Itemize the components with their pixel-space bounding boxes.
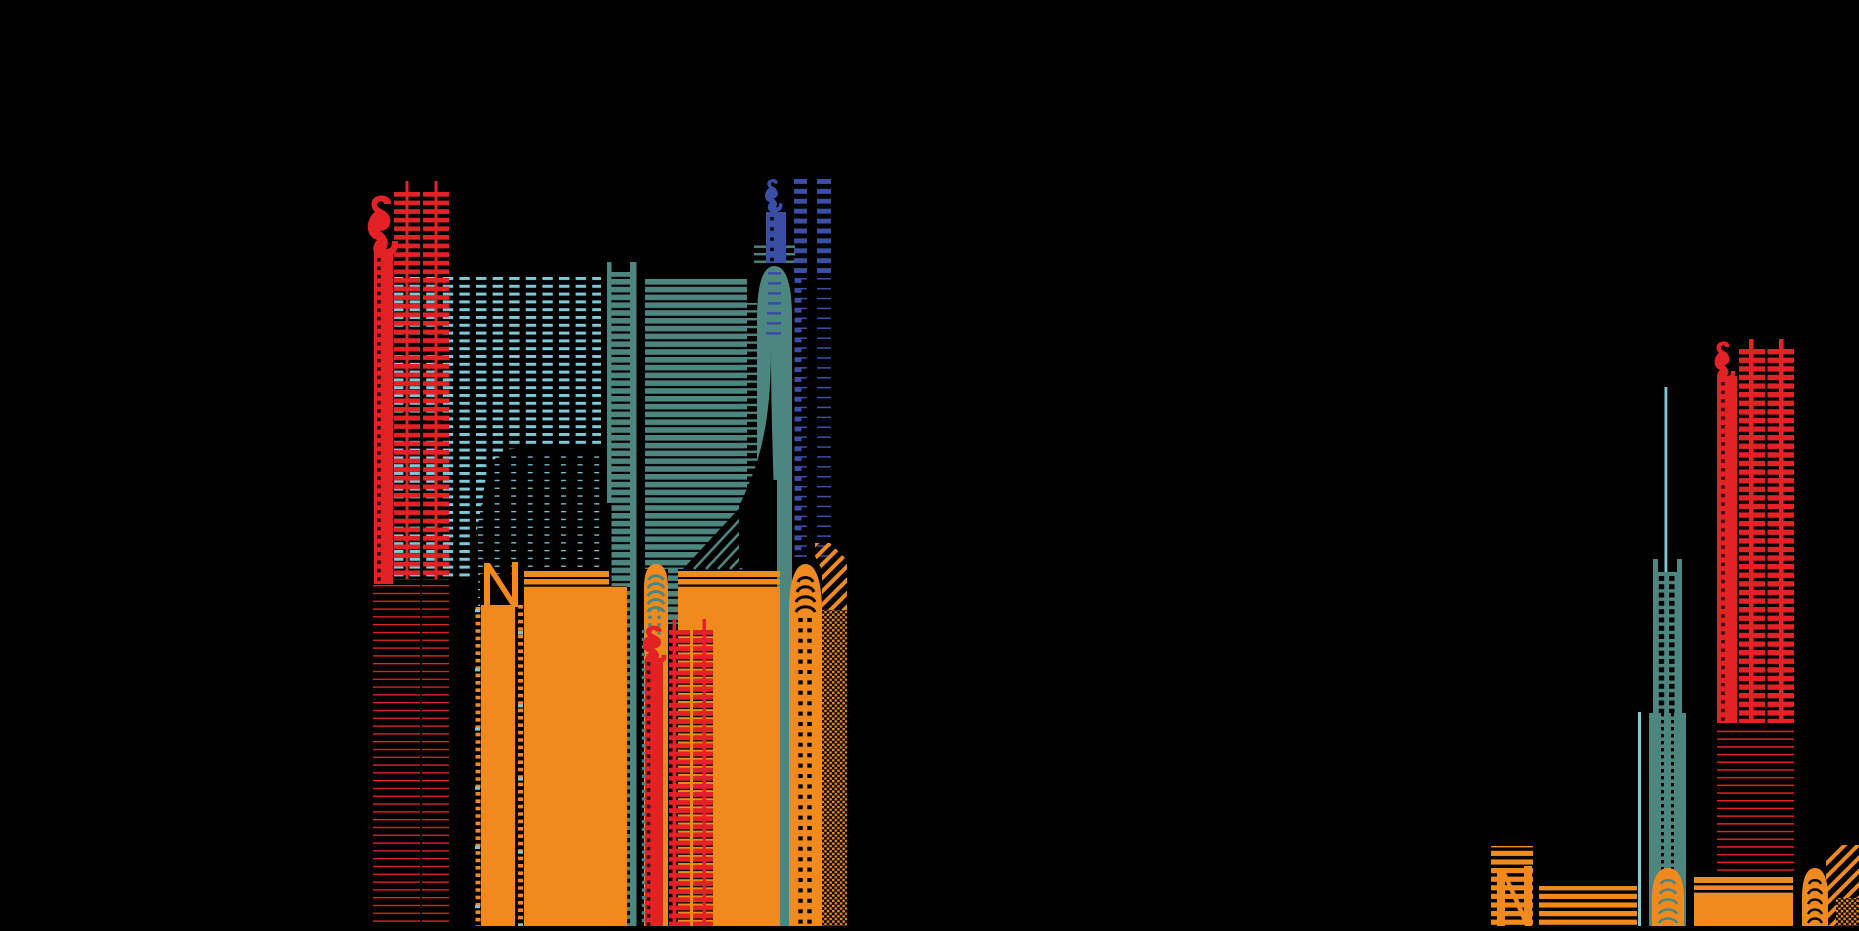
teal lower wide column [1649, 713, 1686, 926]
teal small ladder rail left [1653, 559, 1658, 713]
red thin lines right block [422, 585, 449, 926]
indigo S glyph [765, 179, 782, 212]
teal dotted strip left of rail 2 [627, 586, 630, 926]
teal ladder interior black dash col 2 [1669, 576, 1674, 713]
light blue thin vline lower [1638, 712, 1641, 926]
indigo thin lines column 2 [817, 277, 831, 557]
orange arch glyph over teal [1652, 868, 1684, 926]
light blue ticks sparse right of N column [518, 631, 523, 926]
teal arcs inside right orange arch [1659, 880, 1677, 923]
red thin lines left block [373, 585, 420, 926]
orange column below N [481, 605, 515, 926]
red ladder column 2 bars [423, 192, 449, 579]
orange N glyph [484, 562, 518, 607]
red inner bar dot hatch [647, 662, 651, 926]
teal small ladder interior [1653, 572, 1682, 713]
teal small ladder rail right [1677, 559, 1682, 713]
black fade staircase over grid [476, 445, 601, 577]
teal arcs inside orange bullet [648, 576, 664, 612]
teal diagonal hatch on wedge [694, 512, 747, 569]
red ladder column 1 vertical [406, 181, 409, 579]
red small ladder col 1 [1739, 349, 1765, 723]
teal wide striped block [645, 279, 747, 569]
black curve carving teal column [739, 348, 777, 568]
black dot column 2 in orange arch [807, 618, 811, 926]
red small ladder col 2 [1768, 349, 1795, 723]
red inner S glyph [643, 626, 667, 665]
indigo dash column 1 [794, 179, 807, 274]
indigo S-column bar [766, 212, 786, 263]
orange checker dots far right lower [1836, 898, 1859, 926]
light blue dash grid [394, 277, 601, 577]
teal ladder interior black dash col 1 [1659, 576, 1664, 713]
red small ladder col 2 vertical [1779, 339, 1784, 723]
indigo comb column 1 lower [795, 274, 802, 557]
orange N striped block [1491, 846, 1533, 926]
orange block right black line A [1694, 883, 1793, 885]
orange striped block center [1539, 886, 1637, 926]
orange arch glyph right [789, 564, 822, 926]
red small thin lines [1717, 729, 1794, 877]
red S glyph [368, 195, 398, 258]
red inner column bar [645, 658, 663, 926]
orange checker dot hatch lower [822, 610, 847, 926]
orange block right [1694, 877, 1793, 926]
teal dot column 3 in orange bullet [657, 608, 660, 645]
black dot columns in orange arch [798, 618, 802, 926]
orange block 2 top bar B [678, 579, 780, 585]
light blue thin vline upper [1665, 387, 1668, 604]
teal H-ladder rail 2 [630, 262, 637, 926]
red small ladder col 1 vertical [1749, 339, 1754, 723]
teal dot columns in orange bullet [642, 630, 645, 926]
teal bullet column [757, 266, 792, 480]
orange diagonal hatch far right [1826, 845, 1859, 926]
indigo dash column 2 [817, 179, 831, 277]
red S-column bar dot hatch [377, 258, 381, 585]
orange block 1 top bar B [524, 579, 609, 585]
orange block 1 top bar A [524, 571, 609, 577]
teal comb stripes left of bullet [741, 303, 757, 503]
orange diagonal hatch lines block [815, 543, 847, 610]
teal strip right of bullet [668, 566, 678, 624]
orange arch glyph far right [1802, 868, 1828, 926]
red small bar dot hatch [1721, 382, 1725, 723]
orange comb ticks left of N column [476, 607, 481, 926]
red ladder column 2 vertical [435, 181, 438, 579]
black dots on teal strip [627, 587, 630, 926]
indigo bar dot hatch [770, 217, 774, 262]
teal lower column dotted line 2 [1671, 713, 1674, 926]
orange block 1 [524, 587, 627, 926]
teal lower column dotted line 1 [1661, 713, 1664, 926]
teal dot column 2 in orange bullet [648, 608, 651, 660]
teal H-ladder rail 1 [607, 262, 612, 503]
red inner ladder col 1 vertical [673, 619, 677, 926]
indigo comb teeth column 1 [801, 274, 807, 557]
black arcs inside orange arch [796, 578, 815, 613]
light blue sparse ticks in faded zone [478, 450, 601, 574]
orange bullet glyph [644, 564, 668, 926]
red small column bar [1717, 376, 1737, 723]
red inner ladder col 1 [669, 630, 690, 926]
orange block right black line B [1694, 890, 1793, 893]
red ladder column 1 bars [394, 192, 420, 579]
red inner ladder col 2 vertical [703, 619, 707, 926]
teal lower bar [777, 470, 792, 926]
red S-column bar [374, 253, 393, 584]
teal H-ladder rungs [612, 272, 631, 586]
orange N glyph right [1497, 866, 1532, 926]
teal triple lines [754, 246, 795, 263]
black arcs inside far right arch [1808, 880, 1822, 923]
orange dash column right of N column [518, 605, 523, 926]
light blue tick column left of N [475, 560, 480, 611]
indigo dashes inside bullet [766, 272, 781, 335]
light blue ticks sparse on N comb [475, 609, 480, 926]
black wedge cut in teal block [683, 500, 747, 569]
red inner ladder col 2 [693, 630, 713, 926]
orange block 2 top bar A [678, 571, 780, 577]
red small S glyph [1715, 341, 1735, 382]
orange block 2 [678, 587, 780, 926]
